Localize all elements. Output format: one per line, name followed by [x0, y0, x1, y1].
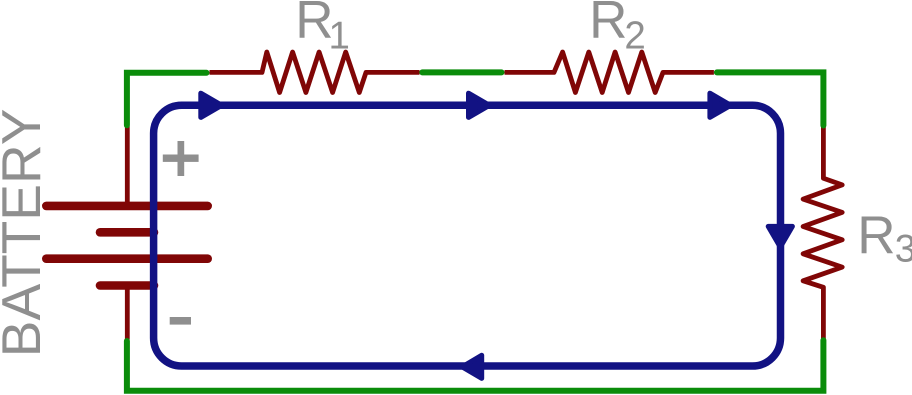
current arrow top 1 [201, 93, 222, 117]
wire green bottom U [127, 340, 824, 391]
wire top red with resistor R1 and resistor R2 zigzags [210, 52, 714, 93]
svg-text:1: 1 [329, 14, 350, 57]
battery plus sign [163, 155, 199, 162]
wire right red upper lead and resistor R3 zigzag and lower lead [803, 126, 842, 340]
battery plate long bottom [46, 254, 207, 263]
battery plate short bottom [100, 281, 154, 290]
svg-text:R: R [589, 0, 627, 50]
svg-text:2: 2 [624, 14, 645, 57]
current arrow right down [768, 226, 792, 247]
svg-text:BATTERY: BATTERY [0, 109, 52, 358]
current arrow top 3 [710, 93, 731, 117]
battery minus sign [170, 317, 191, 325]
current arrow bottom left [462, 355, 482, 378]
current loop blue rounded rectangle [154, 105, 781, 366]
current arrow top 2 [469, 93, 490, 117]
battery plate long top [46, 202, 207, 211]
wire left battery bottom lead [125, 288, 130, 340]
svg-text:R: R [857, 206, 895, 265]
battery plate short [100, 228, 154, 237]
svg-text:3: 3 [895, 227, 912, 270]
wire green top-right corner [717, 72, 824, 125]
wire green top-left corner [127, 73, 207, 126]
wire green top middle [422, 69, 501, 75]
wire left battery top lead [125, 126, 130, 203]
